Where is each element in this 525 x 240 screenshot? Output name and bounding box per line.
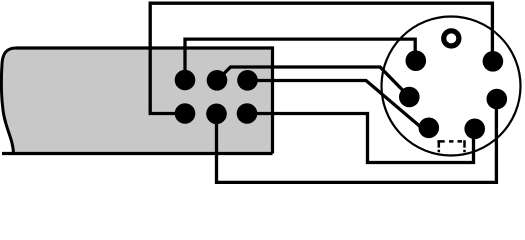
cable body (gray block) [1,48,272,154]
DIN key notch dashed top edge [437,140,465,143]
DIN pin top-right [483,51,504,72]
DIN pin top-left [406,50,427,71]
cable conductor dot 1 (top-left) [175,70,196,91]
wire W6: cable dot5 to DIN right pin (via bottom of page) [217,99,497,182]
wire W1: cable dot4 to DIN top-right pin (via top of page) [150,3,492,113]
DIN pin right [487,89,508,110]
DIN pin bottom-right [464,119,485,140]
wire W3: cable dot2 to DIN middle-left pin [217,67,409,97]
wire W2: cable dot1 to DIN top-left pin [185,39,415,80]
DIN pin bottom-left [419,118,440,139]
cable conductor dot 2 (top-middle) [207,70,228,91]
DIN connector circle [382,17,521,156]
cable left torn edge [1,48,16,154]
wire W5: cable dot6 to DIN bottom-right pin (via lower run) [247,114,474,163]
wire W4: cable dot3 to DIN bottom-left pin [248,81,426,132]
DIN key notch dashed right edge [463,141,466,152]
cable conductor dot 4 (bottom-left) [175,103,196,124]
DIN key notch dashed left edge [438,141,441,152]
cable top border [16,46,273,49]
cable conductor dot 6 (bottom-right) [237,103,258,124]
cable conductor dot 5 (bottom-middle) [206,104,227,125]
cable right border [271,46,274,153]
DIN index hole (open circle) [444,31,459,46]
DIN pin middle-left [399,87,420,108]
cable conductor dot 3 (top-right) [237,70,258,91]
cable bottom border [2,152,273,155]
